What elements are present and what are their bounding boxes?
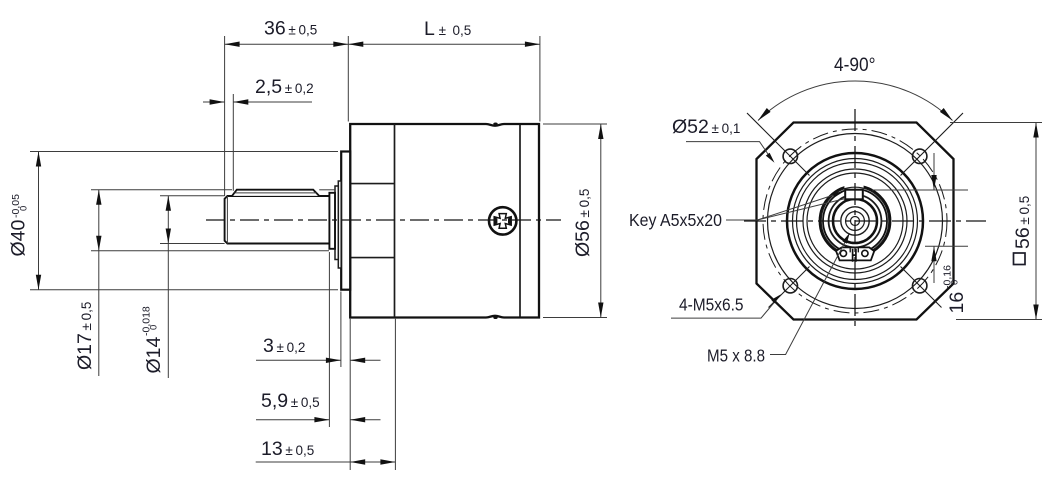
dim 16 0/-0,16 extension lines	[872, 189, 968, 191]
svg-text:Ø14: Ø14	[143, 336, 165, 373]
hub outer / inner circles	[820, 186, 890, 256]
svg-text:4-M5x6.5: 4-M5x6.5	[679, 295, 744, 315]
break mark dots on housing edges	[493, 123, 497, 126]
collar ring A	[329, 193, 335, 249]
clamp slit with screw (H shape)	[853, 249, 856, 262]
bolt circle dia52 (dash-dot)	[763, 129, 947, 313]
shaft clamp bracket (front view)	[836, 247, 874, 260]
svg-text:-0,16: -0,16	[942, 265, 954, 289]
key cross-section in keyway (front view)	[845, 190, 863, 200]
dim line dia14	[167, 196, 169, 378]
dim dia17 extension lines	[91, 189, 232, 191]
dim line 5,9	[256, 419, 329, 421]
dim 2,5+-0,2 extension line	[232, 94, 234, 191]
svg-text:M5 x 8.8: M5 x 8.8	[707, 346, 765, 366]
dim dia14 extension lines	[160, 195, 225, 197]
dim line dia17	[98, 190, 100, 376]
front view octagonal flange outline	[757, 123, 954, 320]
bolt hole top-right	[913, 149, 927, 163]
dim line 2,5	[203, 101, 225, 103]
collar ring B	[335, 186, 338, 260]
dim text sq56+-0,5	[1014, 253, 1026, 265]
bolt hole diagonal centerlines	[747, 113, 810, 176]
front round rim circle dia50	[768, 134, 943, 309]
dim line 13	[256, 461, 396, 463]
dim line sq56	[1035, 123, 1037, 320]
dim arc 4-90 deg	[758, 81, 953, 120]
svg-text:-0,018: -0,018	[141, 306, 153, 336]
dim line dia40	[38, 152, 40, 290]
concentric circles: gearbox front face	[787, 153, 923, 289]
shaft dia14 circle	[833, 199, 877, 243]
dim line dia56	[600, 124, 602, 318]
dim line 36 / L	[225, 43, 540, 45]
svg-text:Key A5x5x20: Key A5x5x20	[629, 210, 722, 230]
front view vertical centerline	[854, 109, 856, 331]
housing internal line: gearbox flange boundary (13mm)	[394, 124, 396, 318]
svg-text:-0,05: -0,05	[10, 194, 22, 218]
side-view horizontal centerline	[206, 219, 561, 221]
pilot boss dia40 (side view)	[341, 152, 350, 290]
dim L+-0,5 extension line	[539, 36, 541, 122]
collar ring C	[338, 181, 341, 268]
key A5x5x20 on shaft (side view)	[232, 190, 319, 196]
dim dia40 extension lines	[30, 151, 338, 153]
front view horizontal centerline	[744, 220, 986, 222]
dim sq56 extension lines	[950, 122, 1042, 124]
bolt hole bottom-right	[913, 279, 927, 293]
dim line 3	[256, 359, 341, 361]
gearmotor housing side view outline	[350, 124, 539, 318]
phillips screw on motor body	[489, 207, 516, 234]
housing internal line: motor end cap	[519, 125, 521, 317]
shaft inner circles	[841, 207, 869, 235]
svg-text:Ø40: Ø40	[8, 219, 30, 256]
dim line 16	[933, 153, 935, 190]
clamp screw holes	[840, 250, 846, 256]
flange corner-chamfer lines (side view)	[350, 183, 394, 185]
bolt hole top-left	[783, 149, 797, 163]
keyway mask	[844, 183, 863, 199]
bolt hole bottom-left	[783, 279, 797, 293]
dim 36+-0,5 extension lines	[224, 36, 226, 196]
svg-text:16: 16	[946, 292, 968, 314]
svg-text:4-90°: 4-90°	[834, 54, 876, 76]
keyway bore circle (passes over keyway)	[821, 187, 889, 255]
dim 3+-0,2 extension lines	[340, 292, 342, 368]
dim dia56 extension lines (side)	[543, 123, 607, 125]
output shaft dia14 (side view)	[225, 196, 330, 244]
